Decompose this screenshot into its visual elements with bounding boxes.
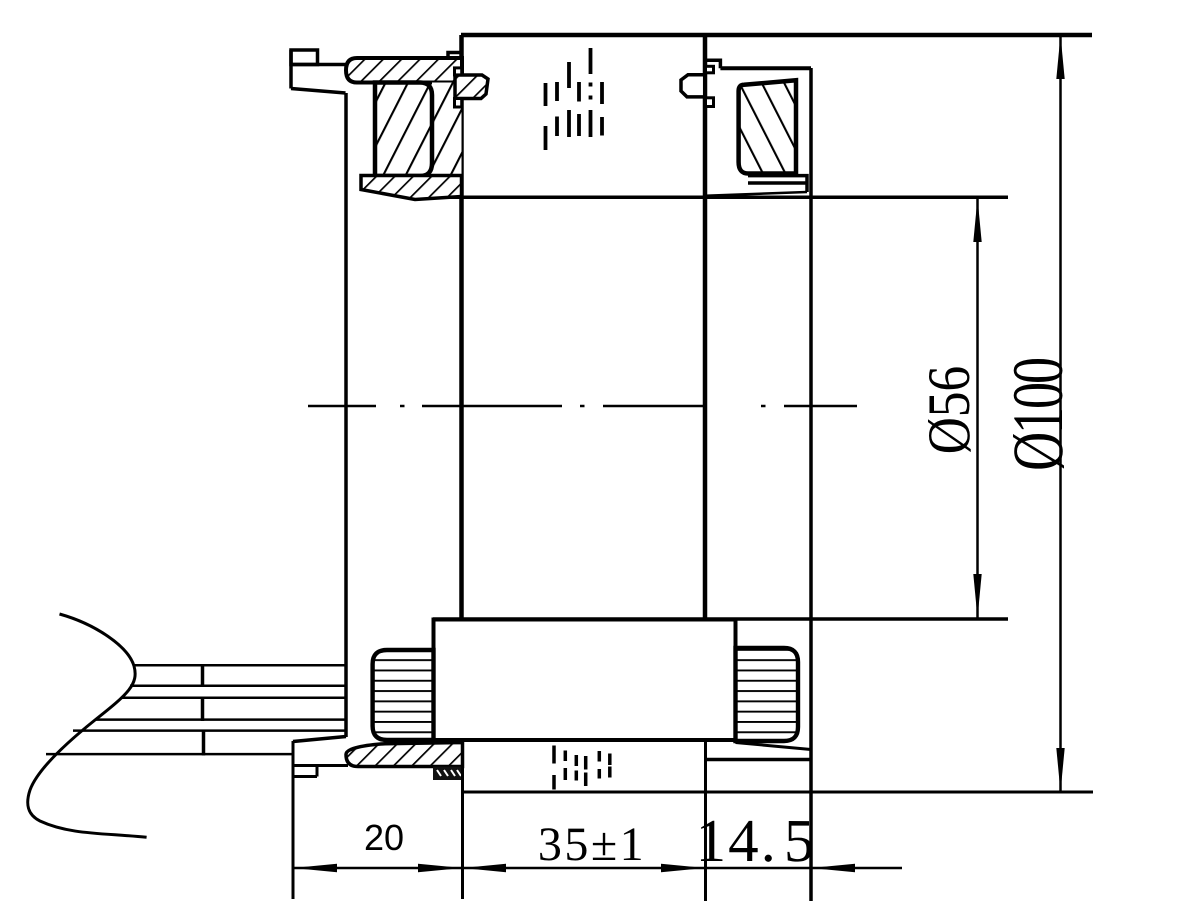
svg-text:14.5: 14.5	[696, 808, 817, 875]
svg-text:35±1: 35±1	[538, 818, 646, 871]
left tab notch lower	[455, 99, 462, 108]
lead wire 4	[96, 718, 346, 721]
Ø100 arrow down	[1056, 748, 1064, 792]
stator bore bottom line	[433, 617, 1008, 621]
left bobbin top step	[448, 53, 462, 61]
right outer surface vertical	[809, 68, 813, 901]
right flange inner vertical + extension	[704, 741, 707, 902]
lead wire 1	[134, 664, 346, 667]
right plug tab	[681, 75, 705, 97]
dimension line bottom	[293, 867, 902, 870]
bottom-left flange bar (hatched)	[346, 743, 463, 767]
centerline	[308, 405, 857, 408]
arrow 20 left	[293, 864, 337, 872]
left winding block (hatched)	[375, 83, 432, 177]
svg-text:Ø100: Ø100	[998, 358, 1078, 470]
lamination end block (dark)	[433, 767, 463, 781]
right flange top step	[705, 60, 720, 68]
right tab notch lower	[706, 98, 714, 107]
lead wire 6	[46, 753, 294, 756]
right flange top edge	[720, 66, 811, 70]
stator outer top line	[461, 33, 1092, 38]
lead wire 5	[73, 729, 346, 732]
left flange edge + extension line	[292, 741, 295, 899]
left bobbin right column (hatched)	[432, 83, 462, 177]
bottom lamination vent marks	[554, 746, 610, 790]
Ø56 dimension line	[976, 198, 979, 618]
extension line x462	[461, 766, 464, 899]
left bobbin bottom bar (hatched)	[361, 176, 462, 200]
lead wire 3	[121, 697, 346, 700]
stator stack left edge vertical	[459, 35, 464, 620]
stator stack right edge vertical	[703, 35, 708, 619]
left bobbin flange tab (hatched)	[455, 75, 488, 99]
wire joint tick 1	[201, 664, 205, 687]
right winding block (hatched)	[739, 80, 796, 173]
arrow 14.5 outside	[811, 864, 855, 872]
bottom slot window rectangle	[434, 620, 736, 741]
svg-text:20: 20	[364, 817, 404, 858]
arrow 20 right	[418, 864, 463, 872]
bottom-right coil (hatched)	[736, 648, 799, 741]
flange notch	[293, 766, 348, 777]
bottom-right flange lines	[706, 758, 811, 762]
left tab notch upper	[455, 68, 462, 75]
top lamination vent marks	[546, 48, 603, 150]
arrow 35 right	[661, 864, 705, 872]
top-left mounting bracket	[291, 50, 346, 93]
Ø100 dimension line	[1059, 35, 1062, 792]
bottom-left coil (hatched)	[373, 650, 434, 740]
arrow 35 left	[463, 864, 507, 872]
wire joint tick 3	[202, 730, 206, 756]
left outer surface vertical	[344, 93, 348, 737]
Ø100 arrow up	[1056, 35, 1064, 79]
bottom-left flange slant	[293, 737, 346, 742]
wire bundle sheath curve	[28, 614, 147, 837]
stator bore top line	[413, 196, 1008, 200]
lamination end block white ticks	[437, 770, 461, 776]
Ø56 arrow up	[973, 198, 981, 242]
right tab notch upper	[706, 66, 714, 73]
left bobbin top bar (hatched)	[346, 58, 462, 83]
Ø56 arrow down	[973, 574, 981, 618]
lead wire 2	[130, 685, 346, 688]
bottom-right flange slant	[736, 743, 812, 750]
right flange bottom slant	[705, 192, 807, 196]
right bobbin lip	[748, 176, 807, 192]
stator outer bottom line	[463, 791, 1093, 794]
wire joint tick 2	[201, 697, 205, 722]
svg-text:Ø56: Ø56	[916, 366, 983, 454]
